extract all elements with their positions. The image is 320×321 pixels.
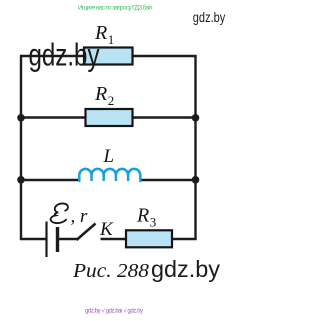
wire battery to switch	[58, 238, 77, 240]
svg-text:gdz.by: gdz.by	[151, 256, 220, 282]
wire right side with top-right and bottom-right corners	[133, 56, 196, 239]
node junction dot left L	[17, 176, 25, 184]
wire left side with top-left and bottom-left corners	[21, 56, 84, 239]
resistor R2	[86, 109, 133, 126]
wire L branch left	[21, 179, 80, 181]
inductor L coil	[79, 169, 140, 181]
svg-text:gdz.by: gdz.by	[193, 9, 226, 25]
wire R2 branch left	[21, 116, 86, 118]
resistor R3	[126, 230, 172, 247]
watermark gdz.by top-left	[29, 37, 100, 73]
watermark gdz.by top-right	[193, 9, 226, 25]
wire R2 branch right	[133, 116, 196, 118]
top green watermark text	[78, 4, 152, 12]
label K	[99, 219, 114, 240]
battery short thick plate	[56, 227, 59, 252]
svg-text:К: К	[99, 219, 114, 240]
wire L branch right	[140, 179, 196, 181]
bottom purple watermark text	[85, 308, 143, 315]
watermark gdz.by bottom	[151, 256, 220, 282]
svg-text:gdz.by √ gdz.bai √ gdz.by: gdz.by √ gdz.bai √ gdz.by	[85, 308, 143, 315]
caption Puc. 288	[72, 260, 149, 282]
svg-text:Ищите нас по запросу ГДЗ.бай: Ищите нас по запросу ГДЗ.бай	[78, 4, 152, 12]
svg-text:gdz.by: gdz.by	[29, 37, 100, 73]
svg-text:, r: , r	[71, 206, 89, 227]
svg-text:R2: R2	[94, 83, 114, 108]
svg-text:R3: R3	[136, 205, 156, 230]
label R1	[94, 22, 114, 47]
label L	[103, 146, 115, 167]
svg-text:Рис. 288: Рис. 288	[72, 260, 149, 282]
svg-text:L: L	[103, 146, 115, 167]
switch K blade	[77, 224, 96, 241]
node junction dot left R2	[17, 114, 25, 122]
wire switch to R3	[101, 238, 127, 240]
node junction dot right L	[192, 176, 200, 184]
label R2	[94, 83, 114, 108]
battery long plate	[45, 222, 47, 258]
label R3	[136, 205, 156, 230]
node junction dot right R2	[192, 114, 200, 122]
label EMF script E, r	[51, 203, 88, 227]
resistor R1	[84, 48, 133, 65]
